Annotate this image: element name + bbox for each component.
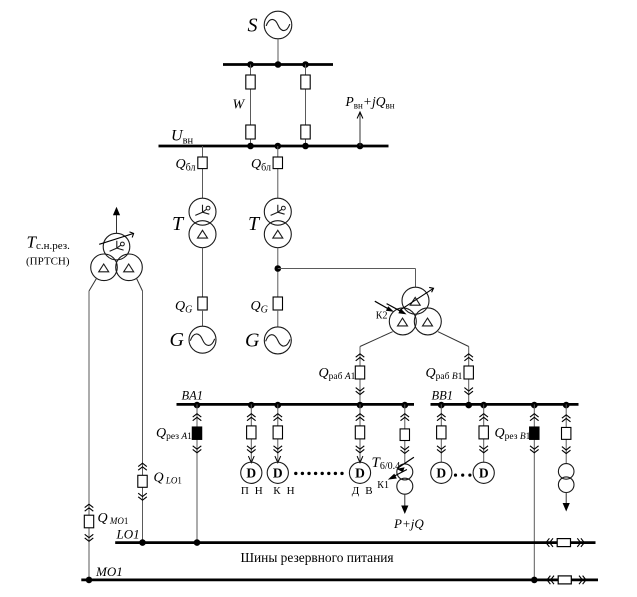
breaker QG unit 1 — [198, 297, 207, 310]
node: BB1 / D2 — [480, 402, 487, 409]
node: Uvn / load arrow — [357, 143, 364, 150]
node: BB1 / T feeder — [563, 402, 570, 409]
node: BB1 / Qrab B1 — [465, 402, 472, 409]
breaker Qrab B1 (drawout) — [464, 354, 473, 395]
transformer T unit 1 — [189, 198, 216, 248]
drawout link on LO1 — [546, 538, 584, 547]
wire feeder T6-0.4 — [404, 404, 406, 464]
breaker W1 upper — [246, 75, 255, 89]
breaker feeder KN (drawout) — [273, 414, 282, 453]
svg-text:К2: К2 — [376, 311, 388, 322]
breaker QMO1 (drawout) — [84, 504, 93, 541]
arrow TB load — [563, 493, 570, 512]
ellipsis BB1 feeders — [454, 474, 472, 477]
drawout link on MO1 — [547, 576, 586, 585]
breaker Qbl unit 1 — [198, 157, 207, 169]
motor D PN — [241, 456, 262, 483]
wire reserve lead to MO1 — [89, 278, 97, 580]
wire Qrez B1 to bus MO1 — [533, 404, 535, 580]
wire feeder TB (right) — [565, 404, 567, 463]
wire reserve lead to LO1 — [136, 278, 142, 543]
node: Uvn / W1 — [247, 143, 254, 150]
svg-text:(ПРТСН): (ПРТСН) — [26, 256, 70, 268]
svg-text:BB1: BB1 — [432, 389, 454, 403]
arrow to reserve supply — [113, 207, 120, 234]
breaker W2 lower — [301, 125, 310, 139]
svg-text:P+jQ: P+jQ — [393, 516, 424, 531]
wire Qrez A1 to bus LO1 — [196, 404, 198, 542]
node: BA1 / Qrez A1 — [194, 402, 201, 409]
breaker feeder T6-0.4 (drawout) — [400, 414, 409, 454]
breaker Qrez B1 (drawout, closed/black) — [530, 414, 539, 453]
svg-text:К Н: К Н — [273, 485, 296, 497]
motor D D section B right — [473, 462, 494, 483]
short-circuit K1 bolt — [388, 457, 414, 479]
reserve transformer Tsn.rez (PRTSN) — [91, 232, 143, 281]
svg-text:T: T — [172, 213, 185, 235]
breaker QLO1 (drawout) — [138, 463, 147, 500]
breaker Qbl unit 2 — [273, 157, 282, 169]
wire feeder PN — [250, 404, 252, 462]
wire aux transformer lead B — [438, 332, 469, 403]
wire S to system bus — [277, 39, 279, 64]
generator G unit 1 — [189, 326, 216, 353]
node: BA1 / KN — [275, 402, 282, 409]
node: Uvn / T2 branch — [275, 143, 282, 150]
breaker feeder D section B left (drawout) — [437, 414, 446, 453]
generator G unit 2 — [264, 327, 291, 354]
bus BA1 (section A) — [177, 403, 415, 406]
transformer TB — [558, 464, 574, 493]
svg-text:Шины резервного питания: Шины резервного питания — [241, 550, 394, 565]
breaker W1 lower — [246, 125, 255, 139]
breaker Qrab A1 (drawout) — [355, 354, 364, 395]
wire feeder DV — [359, 404, 361, 462]
wire tap to auxiliary transformer — [278, 269, 416, 288]
transformer T6-0.4 — [397, 464, 413, 494]
transformer T unit 2 — [264, 198, 291, 248]
node: BB1 / D1 — [438, 402, 445, 409]
bus BB1 (section B) — [431, 403, 579, 406]
svg-text:G: G — [170, 329, 185, 351]
system bus (sending end) — [223, 63, 333, 66]
node: BA1 / T6-0.4 — [402, 402, 409, 409]
wire aux transformer lead A — [360, 332, 393, 403]
wire feeder D section B left — [440, 404, 442, 462]
breaker feeder D section B right (drawout) — [479, 414, 488, 453]
svg-text:Д В: Д В — [352, 485, 374, 497]
source S (system) — [264, 11, 292, 39]
wire feeder D section B right — [483, 404, 485, 462]
svg-text:D: D — [246, 466, 256, 481]
breaker Qrez A1 (drawout, closed/black) — [192, 414, 201, 453]
wire Qbl2 branch — [277, 146, 279, 198]
wire feeder KN — [277, 404, 279, 462]
wire QG2 to G2 — [277, 310, 279, 327]
node: MO1 / QMO1 — [86, 577, 93, 584]
auxiliary transformer TSN (split-winding) — [389, 287, 441, 335]
svg-text:D: D — [273, 466, 283, 481]
node: bus / line W1 — [247, 61, 254, 68]
ellipsis BA1 feeders — [294, 472, 344, 475]
node: Uvn / W2 — [302, 143, 309, 150]
breaker W2 upper — [301, 75, 310, 89]
bus MO1 (reserve) — [81, 579, 598, 582]
motor D DV — [349, 456, 370, 483]
bus Uvn (HV bus) — [159, 145, 389, 148]
breaker feeder DV (drawout) — [355, 414, 364, 453]
svg-text:MO1: MO1 — [95, 564, 123, 579]
node: MO1 / Qrez B1 — [531, 577, 538, 584]
bus LO1 (reserve) — [115, 541, 595, 544]
arrow Pvn+jQvn — [357, 112, 363, 146]
wire line W2 — [305, 65, 307, 147]
svg-text:LO1: LO1 — [116, 527, 140, 542]
short-circuit K2 bolt — [375, 301, 407, 314]
motor D KN — [267, 456, 288, 483]
svg-text:D: D — [479, 466, 489, 481]
node: BB1 / Qrez B1 — [531, 402, 538, 409]
wire QG1 to G1 — [202, 310, 204, 326]
breaker feeder PN (drawout) — [247, 414, 256, 453]
node: BA1 / Qrab A1,DV — [357, 402, 364, 409]
svg-text:S: S — [248, 15, 258, 37]
arrow P+jQ load — [401, 494, 408, 514]
svg-text:G: G — [245, 330, 260, 352]
node: LO1 / QLO1 — [139, 539, 146, 546]
wire T2 to QG2 — [277, 248, 279, 297]
breaker feeder TB (drawout) — [562, 415, 571, 454]
wire Qbl1 branch — [202, 146, 204, 198]
node: bus / line W2 — [302, 61, 309, 68]
svg-text:D: D — [436, 466, 446, 481]
svg-text:К1: К1 — [377, 480, 389, 491]
node: bus / source — [275, 61, 282, 68]
svg-text:П Н: П Н — [241, 485, 264, 497]
wire T1 to QG1 — [202, 248, 204, 297]
node: LO1 / Qrez A1 — [194, 539, 201, 546]
svg-text:W: W — [233, 97, 246, 112]
wire line W1 — [250, 65, 252, 147]
breaker QG unit 2 — [273, 297, 282, 310]
node: BA1 / PN — [248, 402, 255, 409]
node: tap to auxiliary transformer — [275, 265, 282, 272]
motor D D section B left — [431, 462, 452, 483]
svg-text:D: D — [355, 466, 365, 481]
svg-text:BA1: BA1 — [182, 389, 204, 403]
svg-text:T: T — [248, 213, 261, 235]
